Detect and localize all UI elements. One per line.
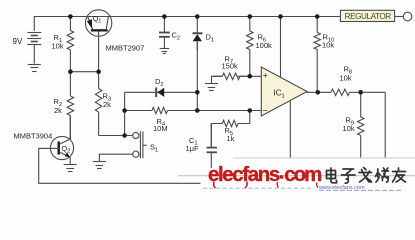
capacitor C2 — [159, 17, 170, 49]
resistor R6 — [247, 17, 253, 77]
svg-text:elecfans: elecfans — [208, 163, 280, 186]
wire R4 right lead — [168, 110, 198, 112]
wire op-amp output row — [307, 91, 386, 93]
watermark strike line — [178, 175, 415, 177]
node D-net junctions — [122, 90, 199, 138]
wire Q2 base to bottom rail — [39, 148, 201, 183]
switch S1 — [133, 131, 147, 158]
wire inverting input row — [197, 110, 261, 112]
label C1 1uF — [186, 136, 199, 153]
svg-text:2k: 2k — [103, 100, 111, 109]
label C2 — [172, 31, 181, 42]
resistor R1 — [67, 17, 73, 72]
svg-text:1k: 1k — [227, 134, 235, 143]
resistor R7 — [222, 73, 250, 79]
label R4 10M — [153, 117, 168, 133]
watermark chinese characters — [327, 168, 406, 184]
svg-text:150k: 150k — [222, 62, 239, 71]
resistor R4 — [152, 107, 168, 113]
watermark band edge — [233, 157, 415, 159]
label MMBT3904 — [14, 131, 53, 140]
svg-text:REGULATOR: REGULATOR — [345, 12, 392, 21]
node output junctions — [316, 90, 364, 95]
wire D2/R4 left vertical — [124, 92, 126, 135]
label op-amp plus — [263, 70, 268, 80]
resistor R10 — [314, 17, 320, 93]
node base row wire Q1 — [70, 71, 98, 73]
transistor Q1 — [85, 10, 111, 72]
node input junctions — [248, 74, 253, 113]
svg-text:com: com — [284, 163, 321, 186]
op-amp IC1 — [261, 67, 307, 116]
label MMBT2907 — [106, 44, 145, 53]
capacitor C1 — [207, 124, 217, 169]
transistor Q2 — [50, 116, 73, 165]
resistor R9 — [358, 92, 364, 157]
svg-text:MMBT2907: MMBT2907 — [106, 44, 145, 53]
label R2 2k — [54, 97, 63, 115]
diode D2 — [156, 88, 164, 98]
resistor R8 — [331, 89, 350, 95]
label D2 — [155, 77, 164, 88]
svg-text:–: – — [263, 105, 268, 115]
wire feedback right vertical — [384, 92, 386, 157]
ground Q2 emitter — [64, 165, 77, 172]
svg-text:10k: 10k — [322, 40, 334, 49]
svg-text:+: + — [263, 70, 268, 80]
wire IC1 V+ lead — [280, 17, 282, 78]
label R8 10k — [340, 65, 353, 83]
node rail junctions — [68, 14, 319, 19]
label R9 10k — [343, 116, 355, 134]
label Q2 — [62, 144, 71, 155]
ground battery — [28, 65, 41, 72]
label D1 — [206, 33, 215, 44]
wire top 9V rail — [34, 17, 340, 32]
ground S1 — [93, 162, 106, 169]
svg-text:100k: 100k — [256, 41, 273, 50]
svg-text:10M: 10M — [153, 124, 168, 133]
label S1 — [150, 143, 158, 154]
watermark small blue lines — [203, 185, 401, 191]
svg-text:10k: 10k — [340, 73, 352, 82]
svg-text:MMBT3904: MMBT3904 — [14, 131, 53, 140]
wire noninverting input row — [213, 75, 261, 77]
label op-amp minus — [263, 105, 268, 115]
svg-text:10k: 10k — [52, 42, 64, 51]
label R7 150k — [222, 54, 239, 70]
label 9V — [13, 37, 23, 46]
label Q1 — [93, 14, 102, 25]
label REGULATOR — [345, 12, 392, 21]
label R3 2k — [103, 92, 112, 110]
label R10 10k — [322, 33, 334, 50]
svg-text:1μF: 1μF — [186, 144, 199, 153]
battery 9V — [27, 33, 41, 64]
wire S1 bottom to ground — [99, 154, 132, 161]
svg-text:10k: 10k — [343, 124, 355, 133]
wire regulator output — [395, 16, 404, 18]
output terminal — [403, 12, 412, 21]
wire D2 row — [125, 91, 198, 93]
watermark elecfans.com — [208, 163, 321, 188]
node Q1 base row junctions — [68, 69, 101, 74]
wire R4 left lead — [125, 110, 152, 112]
wire IC1 V- lead — [289, 101, 291, 158]
wire S1 top row — [99, 135, 133, 137]
label IC1 — [274, 89, 285, 100]
resistor R2 — [67, 72, 73, 140]
wire D1 D2 R4 right vertical — [196, 42, 198, 111]
ground R7 — [205, 76, 222, 90]
svg-text:2k: 2k — [54, 106, 62, 115]
resistor R3 — [95, 72, 101, 136]
ground C2 — [160, 49, 170, 54]
resistor R5 — [211, 111, 250, 148]
svg-text:9V: 9V — [13, 37, 23, 46]
label R1 10k — [52, 33, 64, 51]
label R5 1k — [225, 126, 235, 143]
diode D1 — [193, 17, 203, 51]
regulator block — [340, 10, 394, 21]
label R6 100k — [256, 33, 273, 50]
